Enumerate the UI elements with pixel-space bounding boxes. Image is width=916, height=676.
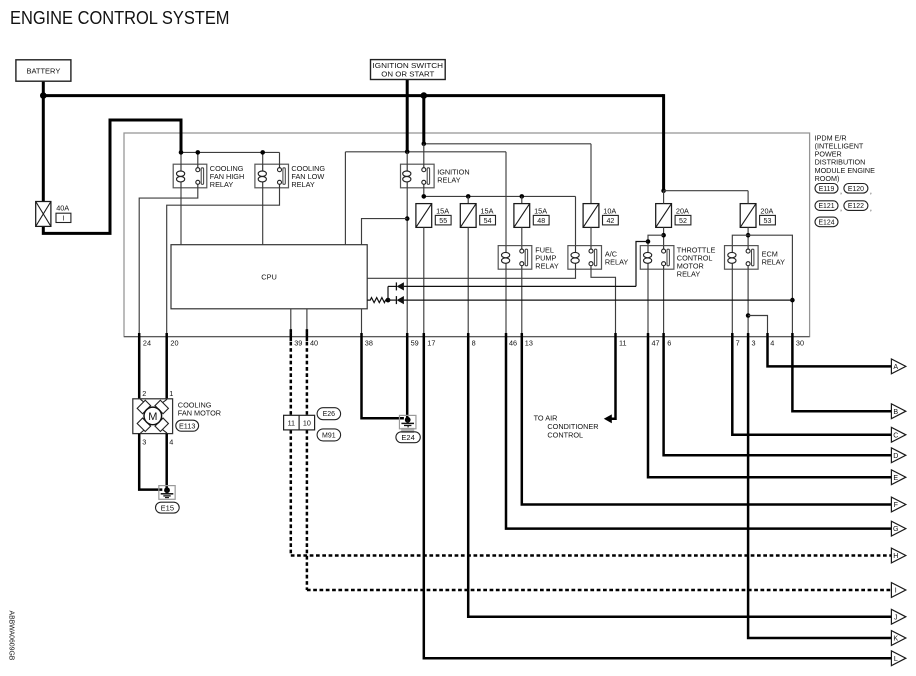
svg-text:46: 46 — [509, 338, 517, 347]
svg-text:M: M — [148, 411, 157, 423]
svg-text:42: 42 — [606, 217, 614, 225]
svg-text:E26: E26 — [323, 411, 336, 418]
svg-text:,: , — [840, 204, 842, 213]
svg-text:RELAY: RELAY — [437, 175, 461, 184]
svg-text:,: , — [870, 204, 872, 213]
svg-text:FAN MOTOR: FAN MOTOR — [178, 408, 221, 417]
svg-text:BATTERY: BATTERY — [26, 66, 60, 75]
svg-text:K: K — [893, 635, 898, 643]
svg-text:RELAY: RELAY — [291, 180, 315, 189]
svg-text:E120: E120 — [848, 186, 864, 193]
svg-text:C: C — [893, 431, 898, 439]
svg-text:17: 17 — [427, 338, 435, 347]
svg-text:,: , — [870, 186, 872, 195]
svg-text:RELAY: RELAY — [210, 180, 234, 189]
svg-text:CONTROL: CONTROL — [547, 431, 583, 440]
svg-text:40A: 40A — [56, 203, 69, 212]
svg-text:A: A — [893, 363, 898, 371]
svg-text:15A: 15A — [436, 207, 449, 216]
svg-text:RELAY: RELAY — [605, 258, 629, 267]
svg-text:11: 11 — [288, 419, 295, 428]
svg-text:6: 6 — [667, 338, 671, 347]
svg-text:20A: 20A — [760, 207, 773, 216]
svg-text:3: 3 — [142, 438, 146, 447]
svg-text:54: 54 — [484, 217, 492, 225]
svg-text:20: 20 — [170, 338, 178, 347]
svg-text:RELAY: RELAY — [762, 258, 786, 267]
svg-text:J: J — [894, 613, 898, 621]
svg-text:13: 13 — [525, 338, 533, 347]
svg-text:H: H — [893, 552, 898, 560]
svg-text:B: B — [893, 408, 898, 416]
svg-text:ABBWA0609GB: ABBWA0609GB — [8, 611, 15, 661]
svg-text:40: 40 — [310, 338, 318, 347]
svg-text:10A: 10A — [603, 207, 616, 216]
svg-text:M91: M91 — [322, 432, 336, 439]
svg-text:2: 2 — [142, 389, 146, 398]
svg-text:ON OR START: ON OR START — [381, 70, 434, 79]
svg-text:4: 4 — [770, 338, 774, 347]
svg-text:15A: 15A — [534, 207, 547, 216]
svg-text:E: E — [893, 474, 898, 482]
svg-text:ENGINE CONTROL SYSTEM: ENGINE CONTROL SYSTEM — [10, 7, 230, 28]
svg-text:47: 47 — [652, 338, 660, 347]
svg-text:D: D — [893, 452, 898, 460]
svg-text:RELAY: RELAY — [677, 270, 701, 279]
svg-text:E113: E113 — [179, 421, 196, 430]
svg-text:E24: E24 — [401, 433, 414, 442]
svg-text:RELAY: RELAY — [535, 262, 559, 271]
svg-text:11: 11 — [619, 338, 627, 347]
svg-text:E119: E119 — [819, 186, 835, 193]
svg-text:24: 24 — [143, 338, 151, 347]
svg-text:55: 55 — [439, 217, 447, 225]
svg-text:CPU: CPU — [261, 273, 277, 282]
svg-text:38: 38 — [365, 338, 373, 347]
svg-text:E15: E15 — [161, 503, 174, 512]
svg-text:20A: 20A — [676, 207, 689, 216]
svg-text:3: 3 — [752, 338, 756, 347]
svg-text:ROOM): ROOM) — [815, 174, 840, 183]
svg-text:48: 48 — [537, 217, 545, 225]
svg-text:E122: E122 — [848, 203, 864, 210]
svg-text:G: G — [893, 525, 899, 533]
svg-text:1: 1 — [169, 389, 173, 398]
svg-text:15A: 15A — [481, 207, 494, 216]
svg-text:I: I — [62, 216, 64, 223]
svg-text:,: , — [840, 186, 842, 195]
svg-text:L: L — [894, 655, 898, 663]
svg-text:I: I — [895, 587, 897, 595]
svg-text:7: 7 — [736, 338, 740, 347]
svg-text:59: 59 — [411, 338, 419, 347]
svg-text:E121: E121 — [818, 203, 834, 210]
svg-text:30: 30 — [796, 338, 804, 347]
svg-text:4: 4 — [169, 438, 173, 447]
svg-text:E124: E124 — [818, 219, 834, 226]
svg-text:52: 52 — [679, 217, 687, 225]
svg-text:10: 10 — [303, 419, 311, 428]
svg-text:8: 8 — [472, 338, 476, 347]
svg-text:53: 53 — [764, 217, 772, 225]
svg-text:F: F — [894, 501, 899, 509]
svg-text:39: 39 — [294, 338, 302, 347]
